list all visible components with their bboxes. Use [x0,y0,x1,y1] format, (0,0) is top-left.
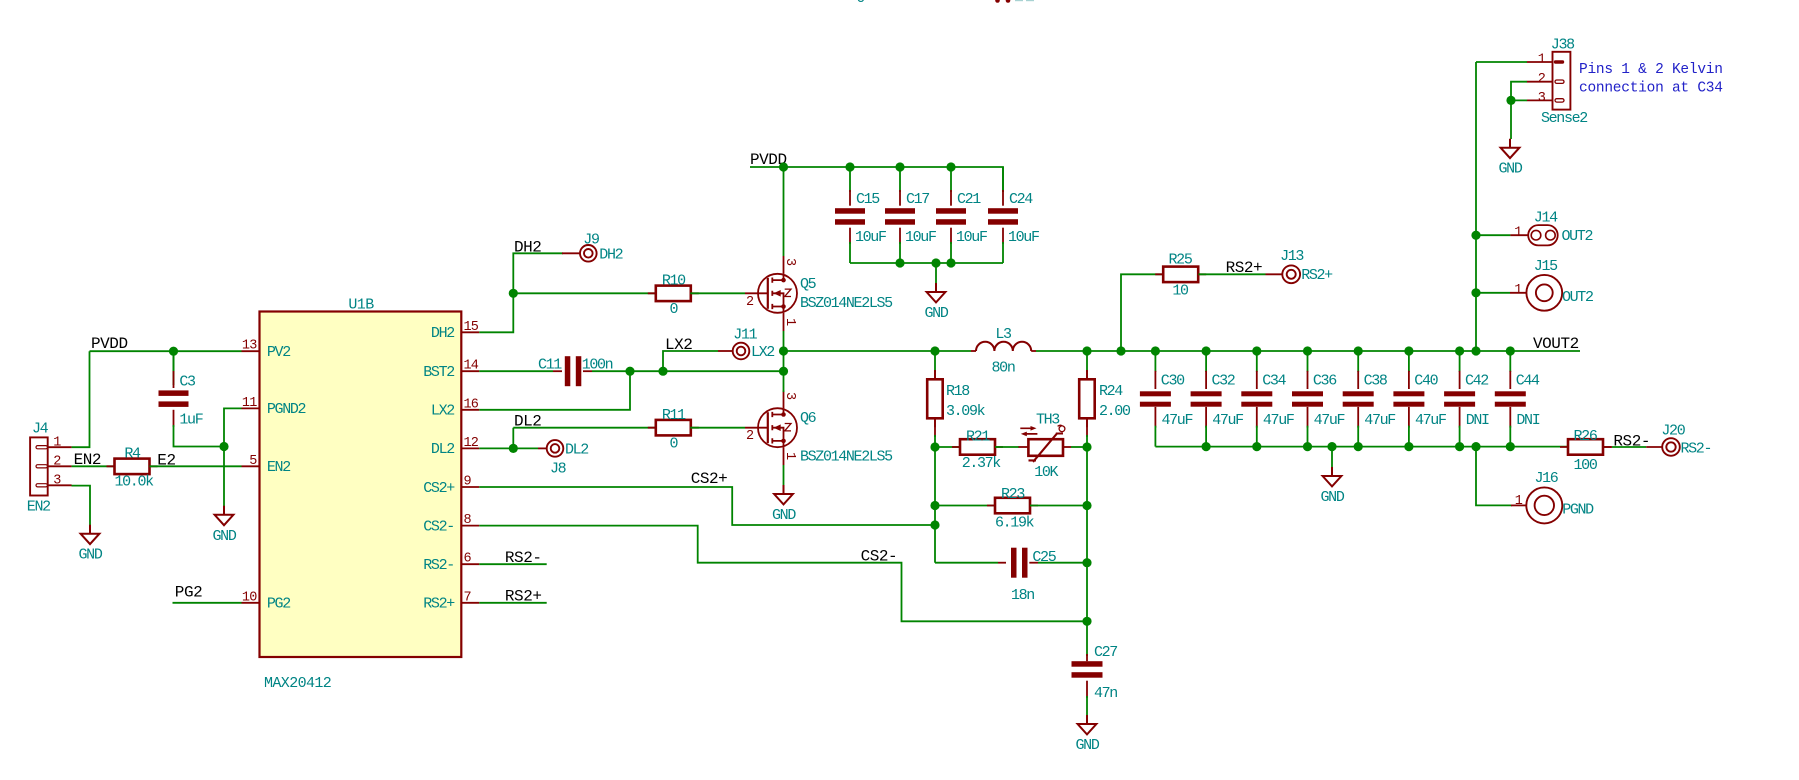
svg-text:RS2-: RS2- [1613,433,1650,451]
svg-text:47uF: 47uF [1263,412,1294,429]
svg-text:RS2-: RS2- [1681,440,1712,457]
svg-text:6: 6 [464,552,472,567]
svg-text:VOUT2: VOUT2 [1533,335,1579,353]
svg-text:connection at C34: connection at C34 [1579,81,1723,97]
svg-text:J16: J16 [1535,470,1559,487]
svg-text:R24: R24 [1099,383,1123,400]
svg-text:RS2-: RS2- [423,557,454,574]
svg-text:10uF: 10uF [1008,229,1039,246]
svg-text:U1B: U1B [348,297,374,314]
svg-text:RS2+: RS2+ [1226,259,1263,277]
svg-text:RS2-: RS2- [505,549,542,567]
svg-text:GND: GND [925,305,949,322]
svg-text:2: 2 [53,455,61,470]
svg-text:47n: 47n [1094,685,1117,702]
svg-text:PV2: PV2 [267,344,290,361]
svg-text:C44: C44 [1516,373,1540,390]
svg-text:RS2+: RS2+ [423,596,455,613]
svg-text:0: 0 [856,0,865,7]
svg-text:C42: C42 [1465,373,1488,390]
svg-text:TH3: TH3 [1036,412,1060,429]
svg-text:47uF: 47uF [1212,412,1243,429]
svg-text:C40: C40 [1414,373,1438,390]
svg-text:PG2: PG2 [175,584,202,602]
svg-text:CS2+: CS2+ [423,480,455,497]
svg-text:C3: C3 [179,374,196,391]
svg-text:GND: GND [1321,489,1345,506]
svg-text:J11: J11 [733,326,757,343]
svg-text:2: 2 [746,429,754,444]
svg-text:J38: J38 [1551,37,1575,54]
svg-text:10: 10 [242,590,257,605]
svg-text:9: 9 [464,475,472,490]
svg-text:8: 8 [464,513,472,528]
svg-text:DH2: DH2 [599,246,622,263]
svg-text:47uF: 47uF [1314,412,1345,429]
svg-text:1: 1 [53,436,61,451]
svg-text:C34: C34 [1262,373,1286,390]
svg-text:RS2+: RS2+ [1301,267,1333,284]
svg-text:GND: GND [79,547,103,564]
svg-text:LX2: LX2 [431,403,454,420]
svg-text:0: 0 [669,301,678,318]
svg-text:6.19k: 6.19k [995,515,1035,532]
svg-text:3: 3 [1538,91,1546,106]
svg-text:100: 100 [1574,457,1598,474]
svg-text:18n: 18n [1011,587,1034,604]
svg-text:80n: 80n [992,360,1015,377]
svg-text:C11: C11 [538,357,562,374]
svg-text:C36: C36 [1313,373,1337,390]
svg-text:3.09k: 3.09k [946,403,986,420]
svg-text:C27: C27 [1094,644,1117,661]
svg-text:1uF: 1uF [179,412,202,429]
svg-text:1: 1 [1538,53,1546,68]
svg-text:C24: C24 [1009,191,1033,208]
svg-text:BST2: BST2 [423,364,454,381]
svg-text:J4: J4 [32,421,49,438]
svg-text:10: 10 [1172,283,1189,300]
svg-text:MAX20412: MAX20412 [264,675,331,692]
svg-text:10uF: 10uF [855,229,886,246]
svg-text:DL2: DL2 [431,441,454,458]
svg-text:GND: GND [213,528,237,545]
svg-text:PGND2: PGND2 [267,401,306,418]
svg-text:3: 3 [53,474,61,489]
svg-text:3: 3 [782,392,797,400]
svg-text:DH2: DH2 [514,239,541,257]
svg-text:R21: R21 [966,429,990,446]
svg-text:5: 5 [249,454,257,469]
svg-text:2.00: 2.00 [1099,403,1131,420]
svg-text:GND: GND [1499,161,1523,178]
svg-text:Sense2: Sense2 [1541,110,1587,127]
svg-text:J13: J13 [1280,248,1304,265]
svg-text:R25: R25 [1169,251,1193,268]
svg-text:PVDD: PVDD [91,335,128,353]
svg-text:DL2: DL2 [565,441,588,458]
svg-text:10uF: 10uF [905,229,936,246]
svg-text:47uF: 47uF [1415,412,1446,429]
svg-text:7: 7 [464,590,472,605]
svg-text:OUT2: OUT2 [1562,289,1593,306]
svg-text:12: 12 [464,436,479,451]
svg-text:CS2-: CS2- [423,518,454,535]
svg-text:DNI: DNI [1516,412,1539,429]
svg-text:10uF: 10uF [956,229,987,246]
svg-text:J8: J8 [550,461,567,478]
svg-text:GND: GND [1076,737,1100,754]
svg-text:10.0k: 10.0k [115,474,155,491]
svg-text:16: 16 [464,397,479,412]
svg-text:C15: C15 [856,191,880,208]
svg-text:C38: C38 [1364,373,1388,390]
svg-text:C21: C21 [957,191,981,208]
svg-text:BSZ014NE2LS5: BSZ014NE2LS5 [800,449,893,466]
svg-text:J20: J20 [1661,423,1685,440]
svg-text:R18: R18 [946,383,970,400]
svg-text:Q6: Q6 [800,410,817,427]
svg-text:R10: R10 [662,273,686,290]
svg-text:DNI: DNI [1466,412,1489,429]
svg-text:47uF: 47uF [1364,412,1395,429]
svg-text:LX2: LX2 [751,344,774,361]
svg-text:Pins 1 & 2 Kelvin: Pins 1 & 2 Kelvin [1579,62,1723,78]
svg-text:11: 11 [242,396,257,411]
svg-text:2: 2 [1538,72,1546,87]
svg-text:BSZ014NE2LS5: BSZ014NE2LS5 [800,295,893,312]
svg-text:2: 2 [746,295,754,310]
svg-text:0: 0 [669,435,678,452]
svg-text:J9: J9 [583,231,599,248]
svg-text:Q5: Q5 [800,276,817,293]
svg-text:R23: R23 [1001,486,1025,503]
svg-text:1: 1 [1514,283,1522,298]
svg-text:10K: 10K [1034,464,1058,481]
svg-text:J14: J14 [1534,210,1558,227]
svg-text:2.37k: 2.37k [962,455,1002,472]
svg-text:EN2: EN2 [27,499,50,516]
svg-text:PGND: PGND [1562,502,1594,519]
svg-text:DH2: DH2 [431,325,454,342]
svg-text:13: 13 [242,339,257,354]
svg-text:PG2: PG2 [267,596,290,613]
svg-text:C30: C30 [1161,373,1185,390]
svg-text:RS2+: RS2+ [505,587,542,605]
svg-text:15: 15 [464,320,479,335]
svg-text:R26: R26 [1574,428,1598,445]
svg-text:GND: GND [772,507,796,524]
svg-text:C17: C17 [906,191,929,208]
svg-text:R4: R4 [124,446,141,463]
svg-text:47uF: 47uF [1162,412,1193,429]
svg-text:1: 1 [1514,225,1522,240]
svg-text:14: 14 [464,359,479,374]
svg-text:EN2: EN2 [267,459,290,476]
svg-text:J15: J15 [1534,258,1558,275]
svg-text:OUT2: OUT2 [1562,228,1593,245]
svg-text:R11: R11 [662,407,686,424]
svg-text:L3: L3 [995,326,1012,343]
svg-text:C32: C32 [1212,373,1235,390]
svg-text:CS2+: CS2+ [691,470,728,488]
svg-text:1: 1 [1515,494,1523,509]
